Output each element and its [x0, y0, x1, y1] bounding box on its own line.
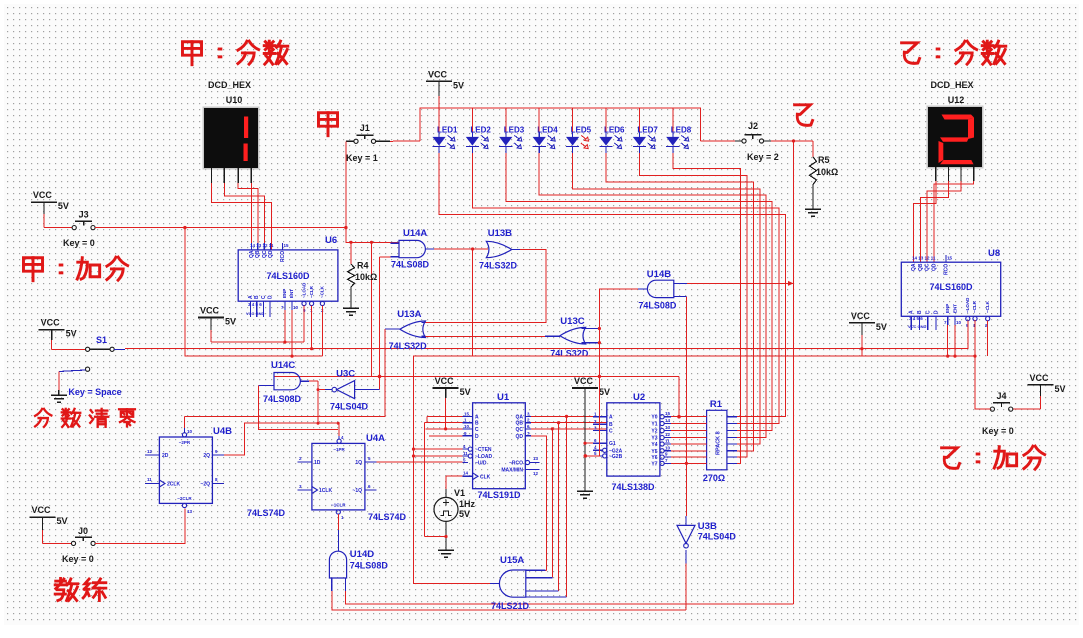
svg-text:ENT: ENT — [953, 304, 958, 313]
LED8 — [666, 108, 692, 153]
svg-text:U14A: U14A — [403, 228, 427, 239]
svg-text:12: 12 — [665, 432, 671, 437]
wire U8 CLR to J4 — [973, 320, 976, 358]
wire U4A CLR from U14D — [337, 514, 339, 551]
svg-text:11: 11 — [147, 477, 152, 482]
svg-text:~2PR: ~2PR — [179, 440, 191, 445]
label A (jiǎ) near J1 — [318, 113, 337, 136]
power VCC for U6 — [198, 306, 236, 343]
svg-text:74LS138D: 74LS138D — [611, 482, 655, 492]
label B-score title — [902, 41, 1006, 64]
svg-text:U12: U12 — [948, 95, 965, 105]
svg-text:C: C — [475, 427, 479, 433]
switch J0 Key=0 — [62, 526, 95, 564]
svg-text:~1CLR: ~1CLR — [331, 503, 346, 508]
wire U1 CTEN/LOAD rows — [412, 448, 463, 458]
svg-text:VCC GND: VCC GND — [246, 311, 265, 316]
svg-text:~CLR: ~CLR — [972, 300, 977, 313]
svg-text:RPACK 8: RPACK 8 — [716, 431, 722, 455]
LED2 — [466, 108, 492, 153]
wire LED4 to R1 net — [539, 153, 766, 438]
wire U8 CLK stub — [987, 321, 989, 356]
svg-text:VCC: VCC — [851, 311, 871, 321]
switch J2 Key=2 — [700, 121, 813, 162]
svg-text:D: D — [934, 310, 940, 314]
wire LED3 to R1 net — [506, 153, 772, 431]
svg-text:U13A: U13A — [397, 309, 421, 320]
svg-text:DCD_HEX: DCD_HEX — [208, 80, 251, 90]
wire U14B out down to U13C/U2 — [585, 289, 638, 456]
svg-text:10: 10 — [956, 320, 962, 325]
wire U2 G2B from U14B — [584, 454, 593, 458]
svg-text:74LS04D: 74LS04D — [330, 402, 369, 412]
svg-text:LED5: LED5 — [571, 126, 592, 135]
svg-text:VCC: VCC — [435, 376, 455, 386]
wire U12 to U8 staircase — [914, 181, 974, 262]
wire U15A out to right bus — [414, 356, 862, 583]
svg-text:DCD_HEX: DCD_HEX — [930, 80, 973, 90]
svg-text:J1: J1 — [360, 123, 370, 133]
svg-text:1D: 1D — [314, 460, 321, 466]
svg-text:74LS08D: 74LS08D — [391, 260, 430, 270]
svg-text:~U/D: ~U/D — [475, 461, 487, 467]
svg-text:5V: 5V — [58, 201, 69, 211]
svg-text:J4: J4 — [996, 391, 1006, 401]
svg-text:D: D — [475, 434, 479, 440]
svg-text:74LS08D: 74LS08D — [350, 561, 389, 571]
svg-text:J2: J2 — [748, 121, 758, 131]
resistor R4 10k — [348, 242, 378, 306]
chip U2 74LS138D — [593, 392, 671, 492]
wire U14A out to U13B — [434, 247, 488, 250]
gate U13B 74LS32D OR — [479, 228, 520, 271]
svg-text:74LS191D: 74LS191D — [477, 490, 521, 500]
svg-text:QD: QD — [932, 263, 938, 271]
svg-text:74LS32D: 74LS32D — [389, 341, 428, 351]
svg-text:U8: U8 — [988, 248, 1000, 259]
svg-text:R1: R1 — [710, 399, 723, 410]
wire Y7 to U14B and U3B — [685, 296, 688, 516]
svg-text:14: 14 — [665, 418, 671, 423]
power VCC for J4 — [1013, 373, 1066, 409]
wire U14C in2 from 1PR bus — [259, 386, 339, 430]
svg-text:LED6: LED6 — [604, 126, 625, 135]
svg-text:U3C: U3C — [336, 369, 355, 380]
gate U13C 74LS32D OR mirrored — [545, 316, 599, 359]
svg-text:VCC: VCC — [33, 190, 53, 200]
switch S1 Key=Space — [59, 335, 122, 397]
svg-text:B: B — [917, 310, 923, 314]
wire U14B in1 from J2 line — [687, 281, 794, 286]
svg-text:10kΩ: 10kΩ — [355, 272, 377, 282]
inverter U3C 74LS04D mirrored — [325, 369, 380, 412]
svg-text:~1Q: ~1Q — [352, 488, 362, 494]
svg-text:ENP: ENP — [945, 304, 950, 313]
wire U4A PR up to bus — [338, 423, 340, 436]
svg-text:Y3: Y3 — [651, 436, 657, 442]
svg-text:U3B: U3B — [698, 521, 717, 532]
ground below R5 — [805, 204, 821, 216]
svg-text:10: 10 — [187, 429, 193, 434]
svg-text:VCC: VCC — [428, 69, 448, 79]
gate U14D 74LS08D AND up — [329, 549, 388, 591]
svg-text:10: 10 — [464, 424, 470, 429]
wire U14D in2 from J2 bus — [346, 591, 794, 604]
wire U2 G1 to VCC — [583, 442, 593, 445]
svg-text:13: 13 — [533, 456, 539, 461]
ground below S1 — [51, 390, 67, 402]
wire LED1 to R1 net — [439, 153, 786, 417]
svg-text:~RCO: ~RCO — [509, 461, 523, 467]
chip U1 74LS191D — [463, 392, 540, 500]
svg-text:A: A — [475, 414, 479, 420]
svg-text:RCO: RCO — [944, 264, 950, 275]
svg-text:R5: R5 — [818, 155, 830, 165]
svg-text:Key = 0: Key = 0 — [62, 554, 94, 564]
svg-text:~LOAD: ~LOAD — [302, 282, 307, 298]
svg-text:U10: U10 — [226, 95, 243, 105]
resistor pack R1 270ohm — [671, 399, 727, 483]
svg-text:U15A: U15A — [500, 555, 524, 566]
svg-text:ENP: ENP — [282, 289, 287, 298]
power VCC for S1 — [39, 318, 86, 350]
svg-text:15: 15 — [665, 411, 671, 416]
svg-text:A: A — [909, 310, 915, 314]
wire U3B output to U14D bus — [685, 550, 687, 610]
svg-text:10: 10 — [665, 445, 671, 450]
svg-text:74LS74D: 74LS74D — [247, 508, 286, 518]
svg-text:5V: 5V — [57, 516, 68, 526]
svg-text:B: B — [254, 295, 260, 299]
svg-text:15: 15 — [464, 411, 470, 416]
svg-text:R4: R4 — [357, 261, 369, 271]
svg-text:2Q: 2Q — [203, 453, 210, 459]
svg-text:74LS08D: 74LS08D — [638, 301, 677, 311]
svg-text:Key = 0: Key = 0 — [982, 426, 1014, 436]
svg-text:U4B: U4B — [213, 426, 232, 437]
wire J1 left down to R4/U14A — [346, 141, 399, 376]
svg-text:270Ω: 270Ω — [703, 473, 725, 483]
svg-text:74LS160D: 74LS160D — [266, 271, 310, 281]
label score-reset — [35, 409, 135, 427]
svg-text:74LS160D: 74LS160D — [929, 282, 973, 292]
wire LED7 to R1 net — [639, 153, 747, 457]
svg-text:5V: 5V — [1055, 384, 1066, 394]
svg-text:74LS74D: 74LS74D — [368, 512, 407, 522]
power VCC for LED rail — [426, 69, 464, 108]
svg-text:15: 15 — [284, 243, 290, 248]
svg-text:LED2: LED2 — [470, 126, 491, 135]
wire clock bus U14C to Y0 — [274, 375, 681, 419]
wire U4B PR up to bus — [184, 417, 186, 428]
svg-text:C: C — [925, 310, 931, 314]
svg-text:~CTEN: ~CTEN — [475, 447, 492, 453]
wire U6 ENP/LOAD to VCC — [211, 306, 304, 344]
svg-text:1Q: 1Q — [355, 460, 362, 466]
svg-text:~CLK: ~CLK — [985, 300, 990, 313]
svg-text:U2: U2 — [633, 392, 645, 403]
svg-text:5V: 5V — [876, 322, 887, 332]
wire LED6 to R1 net — [606, 153, 754, 451]
svg-text:U14B: U14B — [647, 269, 671, 280]
svg-text:Y6: Y6 — [651, 455, 657, 461]
wire J3 to U6 enable bus — [95, 226, 347, 230]
wire U10 to U6 staircase — [212, 183, 272, 250]
svg-text:LED8: LED8 — [671, 126, 692, 135]
ground below V1 — [438, 545, 454, 557]
power VCC for U2 and ground — [572, 376, 610, 488]
svg-text:QC: QC — [516, 427, 524, 433]
svg-text:Y4: Y4 — [651, 442, 657, 448]
svg-text:10: 10 — [293, 305, 299, 310]
wire U14A branch down to enable bus — [472, 249, 474, 356]
svg-text:QC: QC — [924, 263, 930, 271]
label B add-score — [942, 446, 1045, 469]
svg-text:2D: 2D — [162, 453, 169, 459]
svg-text:J0: J0 — [78, 526, 88, 536]
wire U1 UD from U4A 1Q — [377, 461, 463, 463]
svg-text:74LS08D: 74LS08D — [263, 394, 302, 404]
wire U14D in1 from U3B bus — [332, 591, 686, 610]
svg-text:Y1: Y1 — [651, 422, 657, 428]
svg-text:QA: QA — [911, 263, 917, 271]
wire V1 bottom to ground — [444, 521, 447, 550]
wire U13A out down to PR bus — [185, 329, 386, 417]
svg-text:LED4: LED4 — [537, 126, 558, 135]
svg-text:5V: 5V — [599, 387, 610, 397]
wire U14C out to U3C out node — [309, 380, 318, 382]
svg-text:C: C — [609, 429, 613, 435]
svg-text:V1: V1 — [454, 488, 465, 498]
svg-text:5V: 5V — [225, 317, 236, 327]
svg-text:U13C: U13C — [560, 316, 584, 327]
wire S1 to ground — [58, 372, 60, 394]
wire J0 to U4B CLR — [95, 509, 185, 544]
gate U14C 74LS08D AND — [259, 360, 309, 404]
svg-text:5V: 5V — [66, 329, 77, 339]
svg-text:ENT: ENT — [289, 289, 294, 298]
svg-text:B: B — [475, 421, 479, 427]
svg-text:~LOAD: ~LOAD — [475, 454, 492, 460]
svg-text:15: 15 — [947, 256, 953, 261]
source V1 1Hz clock — [434, 488, 476, 521]
power VCC for U8 — [849, 311, 887, 356]
svg-text:Y0: Y0 — [651, 415, 657, 421]
svg-text:QB: QB — [918, 263, 924, 271]
svg-text:~1PR: ~1PR — [333, 447, 345, 452]
svg-text:VCC: VCC — [32, 505, 52, 515]
LED1 — [432, 108, 458, 153]
svg-text:QD: QD — [516, 434, 524, 440]
svg-text:QD: QD — [268, 250, 274, 258]
inverter U3B 74LS04D — [677, 516, 736, 548]
svg-text:14 13 12 11: 14 13 12 11 — [250, 243, 274, 248]
svg-text:U14C: U14C — [271, 360, 295, 371]
display U10 DCD_HEX — [203, 80, 260, 183]
svg-text:S1: S1 — [96, 335, 107, 345]
svg-text:~LOAD: ~LOAD — [965, 297, 970, 313]
svg-text:5V: 5V — [453, 80, 464, 90]
flip-flop U4A 74LS74D — [298, 433, 407, 522]
wire J1 right to LED rail — [390, 140, 420, 143]
svg-text:~CLK: ~CLK — [320, 285, 325, 298]
LED6 — [599, 108, 625, 153]
chip U6 74LS160D — [238, 235, 338, 317]
wire U1 QA-QC rows to U2 — [531, 415, 607, 571]
svg-text:Key = 1: Key = 1 — [346, 153, 378, 163]
svg-text:QB: QB — [516, 421, 524, 427]
wire U6 CLK to J3 bus — [321, 306, 323, 357]
ground below R4 — [343, 303, 359, 315]
label B (yǐ) near J2 — [795, 105, 813, 126]
svg-text:QA: QA — [516, 414, 524, 420]
svg-text:Y2: Y2 — [651, 429, 657, 435]
svg-text:LED3: LED3 — [504, 126, 525, 135]
svg-text:Y7: Y7 — [651, 461, 657, 467]
svg-text:74LS32D: 74LS32D — [479, 261, 518, 271]
svg-text:Key = Space: Key = Space — [68, 387, 121, 397]
svg-text:U6: U6 — [325, 235, 337, 246]
svg-text:~G2B: ~G2B — [609, 454, 623, 460]
svg-text:U13B: U13B — [488, 228, 512, 239]
wire U8 enable bus — [862, 325, 975, 358]
svg-text:11: 11 — [463, 451, 468, 456]
svg-text:5V: 5V — [460, 387, 471, 397]
wire U1 outputs down to U15A — [552, 416, 566, 597]
wire V1 to U1 CLK — [446, 476, 463, 497]
svg-text:Key = 0: Key = 0 — [63, 238, 95, 248]
wire U13B out to U13A — [425, 249, 546, 322]
wire LED top rail — [420, 108, 700, 141]
svg-text:14: 14 — [463, 471, 469, 476]
svg-text:~CLR: ~CLR — [309, 285, 314, 298]
svg-text:74LS32D: 74LS32D — [550, 349, 589, 359]
power VCC for J3 — [31, 190, 72, 228]
wire U6 CLR to S1 bus — [310, 306, 313, 351]
wire U8 LOAD to reset bus — [967, 321, 970, 349]
svg-text:U14D: U14D — [350, 549, 374, 560]
svg-text:12: 12 — [147, 449, 153, 454]
svg-text:LED1: LED1 — [437, 126, 458, 135]
resistor R5 10k — [810, 141, 839, 204]
svg-text:A: A — [248, 295, 254, 299]
svg-text:MAX/MIN: MAX/MIN — [501, 468, 523, 474]
svg-text:QA: QA — [249, 250, 255, 258]
svg-text:~2Q: ~2Q — [200, 482, 210, 488]
gate U15A 74LS21D AND mirrored — [490, 555, 567, 611]
label A add-score — [23, 257, 127, 281]
wire LED2 to R1 net — [472, 153, 779, 424]
wire U13C out to U13A in2 — [425, 335, 545, 337]
svg-text:14 13 12 11: 14 13 12 11 — [912, 256, 936, 261]
svg-text:~2CLR: ~2CLR — [177, 496, 192, 501]
switch J1 Key=1 — [346, 123, 390, 163]
svg-text:U1: U1 — [497, 392, 510, 403]
LED3 — [499, 108, 525, 153]
wire U14A in2 from Y0 net — [378, 257, 399, 390]
svg-text:RCO: RCO — [280, 251, 286, 262]
svg-text:QB: QB — [255, 250, 261, 258]
wire S1 reset bus — [114, 348, 968, 351]
wire U15A inputs risers — [545, 569, 548, 571]
svg-text:B: B — [609, 422, 613, 428]
LED5 — [566, 108, 592, 153]
svg-text:J3: J3 — [79, 210, 89, 220]
svg-text:5V: 5V — [459, 509, 470, 519]
wire U6 ENT to J3 bus — [291, 310, 293, 356]
svg-text:VCC GND: VCC GND — [908, 324, 927, 329]
svg-text:3 4 5 6: 3 4 5 6 — [248, 302, 262, 307]
svg-text:11: 11 — [665, 439, 670, 444]
svg-text:VCC: VCC — [41, 318, 61, 328]
svg-text:13: 13 — [665, 425, 671, 430]
svg-text:Y5: Y5 — [651, 449, 657, 455]
switch J4 Key=0 — [982, 391, 1014, 436]
wire J3 branch down to U6 ENT/CLK — [185, 228, 323, 358]
svg-text:D: D — [268, 295, 274, 299]
LED4 — [533, 108, 559, 153]
flip-flop U4B 74LS74D — [145, 426, 285, 518]
svg-text:VCC: VCC — [1030, 373, 1050, 383]
label A-score title — [182, 41, 287, 65]
wire U1 ABCD rows — [424, 416, 462, 536]
wire J4 to U8 enable — [975, 320, 990, 409]
svg-text:CLK: CLK — [480, 475, 491, 481]
wire LED5 to R1 net — [573, 153, 760, 444]
wire J2 long vertical — [792, 139, 795, 604]
LED7 — [633, 108, 659, 153]
svg-text:10kΩ: 10kΩ — [816, 167, 838, 177]
svg-text:VCC: VCC — [574, 376, 594, 386]
svg-text:LED7: LED7 — [637, 126, 658, 135]
label coach — [55, 578, 106, 600]
svg-text:QC: QC — [262, 250, 268, 258]
svg-text:3 4 5 6: 3 4 5 6 — [909, 316, 923, 321]
svg-text:1Hz: 1Hz — [459, 499, 476, 509]
gate U14A 74LS08D AND — [391, 228, 434, 270]
ground below U2 VCC — [577, 486, 593, 498]
wire U4B 2Q to 1PR bus — [224, 422, 340, 455]
svg-text:2CLK: 2CLK — [167, 482, 180, 488]
svg-text:12: 12 — [533, 471, 539, 476]
wire U3C out down to 2Q bus — [317, 381, 326, 425]
chip U8 74LS160D — [901, 248, 1000, 330]
gate U14B 74LS08D AND mirrored — [638, 269, 687, 311]
wire LED8 to R1 net — [673, 153, 741, 463]
svg-text:C: C — [261, 295, 267, 299]
svg-text:13: 13 — [187, 509, 193, 514]
power VCC for J0 — [30, 505, 72, 543]
svg-text:74LS04D: 74LS04D — [698, 532, 737, 542]
svg-text:VCC: VCC — [200, 306, 220, 316]
gate U13A 74LS32D OR mirrored — [385, 309, 427, 351]
svg-text:74LS21D: 74LS21D — [491, 601, 530, 611]
svg-text:Key = 2: Key = 2 — [747, 152, 779, 162]
svg-text:U4A: U4A — [366, 433, 385, 444]
svg-text:1CLK: 1CLK — [319, 488, 332, 494]
display U12 DCD_HEX — [927, 80, 984, 181]
switch J3 Key=0 — [63, 210, 95, 249]
power VCC for U1 — [433, 376, 471, 429]
svg-text:A: A — [609, 415, 613, 421]
svg-text:G1: G1 — [609, 441, 616, 447]
